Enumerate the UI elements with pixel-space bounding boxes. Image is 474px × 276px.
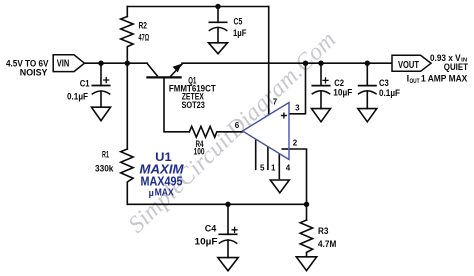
svg-text:R3: R3 <box>318 226 329 237</box>
svg-text:C5: C5 <box>234 16 243 26</box>
svg-text:OUT: OUT <box>410 78 420 85</box>
svg-text:47Ω: 47Ω <box>139 33 150 43</box>
svg-text:3: 3 <box>295 103 300 112</box>
svg-text:4.7M: 4.7M <box>318 239 336 250</box>
svg-text:SOT23: SOT23 <box>182 100 205 110</box>
svg-text:C2: C2 <box>334 78 344 88</box>
svg-text:6: 6 <box>235 121 240 130</box>
svg-text:1µF: 1µF <box>233 28 247 38</box>
svg-text:10µF: 10µF <box>195 237 218 248</box>
svg-text:5: 5 <box>260 163 265 172</box>
svg-text:QUIET: QUIET <box>444 62 469 72</box>
svg-text:C4: C4 <box>205 224 217 235</box>
svg-text:2: 2 <box>293 139 298 148</box>
svg-text:R2: R2 <box>139 20 148 30</box>
svg-text:µ: µ <box>149 188 154 198</box>
svg-text:100: 100 <box>194 146 205 156</box>
svg-text:MAX: MAX <box>155 187 174 199</box>
svg-text:NOISY: NOISY <box>20 68 48 78</box>
svg-text:C1: C1 <box>80 78 90 88</box>
svg-text:0.1µF: 0.1µF <box>67 91 88 101</box>
svg-text:10µF: 10µF <box>333 88 352 98</box>
svg-text:VIN: VIN <box>57 59 70 70</box>
svg-text:4: 4 <box>286 163 291 172</box>
svg-text:7: 7 <box>273 98 278 107</box>
svg-text:0.1µF: 0.1µF <box>379 88 400 98</box>
svg-text:330k: 330k <box>95 164 114 174</box>
svg-text:C3: C3 <box>379 78 389 88</box>
svg-text:1: 1 <box>271 163 276 172</box>
svg-text:VOUT: VOUT <box>398 59 419 71</box>
svg-text:1 AMP MAX: 1 AMP MAX <box>421 73 467 83</box>
svg-text:R1: R1 <box>102 150 109 160</box>
